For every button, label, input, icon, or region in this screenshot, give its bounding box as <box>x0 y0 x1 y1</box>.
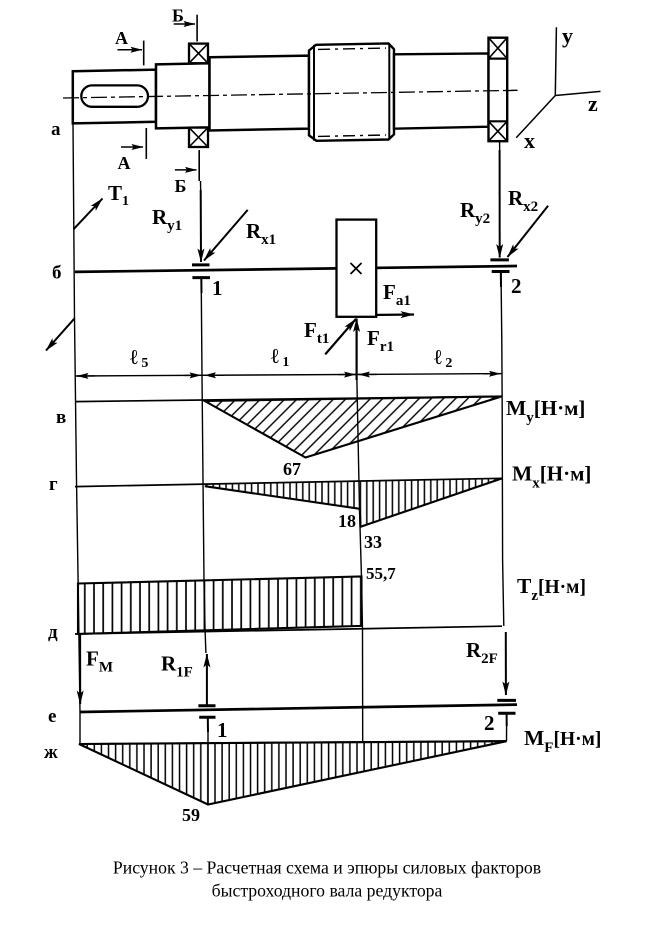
support 1 stem <box>200 278 202 293</box>
bearing 1 lower square <box>189 128 208 147</box>
vertical line L3 (gear plane) <box>357 376 363 741</box>
force Ft1 arrow <box>325 319 356 355</box>
svg-text:г: г <box>49 474 58 495</box>
svg-text:1: 1 <box>212 276 223 300</box>
shaft centerline <box>63 90 517 98</box>
torque arrow lower left <box>46 318 75 350</box>
support 2 upper dash <box>490 258 509 261</box>
gear center cross <box>351 263 362 274</box>
force Rx2 arrow <box>508 206 549 257</box>
support 1F upper dash <box>198 704 215 707</box>
vertical line L2 (support 1) lower <box>207 730 209 805</box>
shaft segment 3 <box>210 56 310 131</box>
MF diagram triangle <box>79 741 507 804</box>
My baseline <box>75 396 502 401</box>
svg-text:Т1: Т1 <box>108 181 129 209</box>
Tz diagram rectangle <box>78 577 362 634</box>
keyway <box>81 85 148 106</box>
dim arrow l1 left <box>205 374 225 376</box>
svg-text:Rу1: Rу1 <box>152 205 182 234</box>
dim arrow l5 right <box>184 374 201 376</box>
svg-text:А: А <box>118 153 131 173</box>
svg-text:ж: ж <box>44 742 58 763</box>
bearing 2 outer rect <box>489 38 508 142</box>
svg-text:Ft1: Ft1 <box>304 318 329 347</box>
beam b left part <box>75 268 337 272</box>
force Fa1 arrow <box>376 313 414 316</box>
force R2F arrow <box>505 632 507 695</box>
svg-text:2: 2 <box>484 711 495 735</box>
vertical line L4 (support 2) middle <box>501 273 504 626</box>
MF baseline <box>79 741 507 744</box>
shaft segment 1 (shaft end) <box>73 70 156 124</box>
svg-text:быстроходного вала редуктора: быстроходного вала редуктора <box>212 881 443 901</box>
bearing 2 upper crossed square <box>489 38 508 59</box>
svg-text:x: x <box>524 128 535 153</box>
svg-text:ℓ 5: ℓ 5 <box>130 345 148 371</box>
svg-text:Тz[Н·м]: Тz[Н·м] <box>517 574 586 604</box>
coordinate axes x y z <box>516 23 600 153</box>
svg-text:Рисунок 3 – Расчетная схема и: Рисунок 3 – Расчетная схема и эпюры сило… <box>113 858 541 878</box>
svg-text:59: 59 <box>182 805 200 825</box>
svg-text:Б: Б <box>172 6 184 26</box>
svg-text:67: 67 <box>283 459 301 479</box>
dim arrow l5 left <box>77 375 95 377</box>
svg-text:ℓ 1: ℓ 1 <box>271 344 289 370</box>
svg-text:Му[Н·м]: Му[Н·м] <box>506 396 585 426</box>
gear pitch line bottom <box>318 135 386 136</box>
support 2 lower dash <box>492 270 510 273</box>
svg-text:Fr1: Fr1 <box>367 326 394 355</box>
gear pitch line top <box>318 48 386 49</box>
bearing 1 upper square <box>189 44 208 64</box>
beam e <box>80 705 517 712</box>
svg-text:Rх2: Rх2 <box>508 186 538 215</box>
support 1 upper dash <box>192 263 210 266</box>
svg-text:Мх[Н·м]: Мх[Н·м] <box>512 462 591 492</box>
section B upper: label, arrow, tick <box>172 6 197 42</box>
gear rectangle on beam <box>337 220 377 317</box>
dim arrow l1 right <box>338 374 356 376</box>
force FM arrow <box>79 635 81 704</box>
svg-text:Fа1: Fа1 <box>383 280 411 309</box>
shaft segment 4 <box>394 53 489 128</box>
vertical line L4 (support 2) lower <box>506 726 508 742</box>
svg-text:55,7: 55,7 <box>366 564 396 583</box>
support 2 stem <box>500 272 502 288</box>
svg-text:R1F: R1F <box>161 652 193 681</box>
shaft segment 2 <box>156 63 210 128</box>
svg-text:Rх1: Rх1 <box>246 219 276 248</box>
gear face line left <box>313 45 315 141</box>
svg-text:z: z <box>588 91 598 116</box>
svg-text:Б: Б <box>175 176 187 196</box>
Mx diagram outline <box>205 478 502 526</box>
support 2F upper dash <box>497 699 516 702</box>
vertical line L4 (support 2) upper <box>499 141 501 155</box>
force Ry1 arrow <box>200 190 202 262</box>
torque T1 arrow <box>74 199 103 230</box>
svg-text:в: в <box>56 407 66 428</box>
support 1 lower dash <box>192 276 210 279</box>
support 2F lower dash <box>498 712 515 715</box>
svg-text:1: 1 <box>217 718 228 742</box>
centerline stub right of bearing 2 <box>507 89 517 91</box>
support 1F lower dash <box>199 716 215 719</box>
support 2F stem <box>506 713 508 726</box>
svg-text:18: 18 <box>338 511 356 531</box>
section A lower: tick, arrow, label <box>118 128 147 173</box>
svg-text:МF[Н·м]: МF[Н·м] <box>524 726 601 756</box>
vertical line L1 (left border) <box>73 123 80 744</box>
force Rx1 arrow <box>204 210 248 261</box>
svg-text:33: 33 <box>364 532 382 552</box>
dim arrow l2 right <box>483 373 501 375</box>
vertical line L2 (support 1) middle <box>201 279 206 653</box>
dim arrow l2 left <box>359 373 378 375</box>
gear face line right <box>388 44 390 140</box>
vertical line L2 (support 1) upper <box>200 181 202 192</box>
My diagram triangle <box>205 396 502 457</box>
Mx baseline <box>75 478 502 486</box>
svg-text:ℓ 2: ℓ 2 <box>434 345 452 371</box>
support 1F stem <box>207 717 209 732</box>
Mx diagram polygon <box>205 478 502 526</box>
section B lower: tick, arrow, label <box>175 150 200 196</box>
svg-text:А: А <box>115 28 128 48</box>
svg-text:FМ: FМ <box>86 647 113 676</box>
svg-text:2: 2 <box>511 274 522 298</box>
svg-text:Rу2: Rу2 <box>460 198 490 227</box>
svg-text:е: е <box>48 706 56 727</box>
Tz axis line <box>75 626 502 634</box>
force Fr1 arrow <box>356 319 358 381</box>
svg-text:y: y <box>562 23 573 48</box>
svg-text:б: б <box>52 263 62 284</box>
dimension line <box>76 374 503 376</box>
beam b right part <box>376 266 517 268</box>
gear body (octagon with chamfers) <box>309 43 394 140</box>
force R1F arrow (up) <box>206 654 208 705</box>
bearing 2 lower crossed square <box>489 121 508 141</box>
svg-text:R2F: R2F <box>466 638 498 667</box>
svg-text:а: а <box>51 119 61 140</box>
section A upper: label, arrow, tick <box>115 28 144 65</box>
force Ry2 arrow <box>499 150 501 258</box>
svg-text:д: д <box>48 622 58 643</box>
